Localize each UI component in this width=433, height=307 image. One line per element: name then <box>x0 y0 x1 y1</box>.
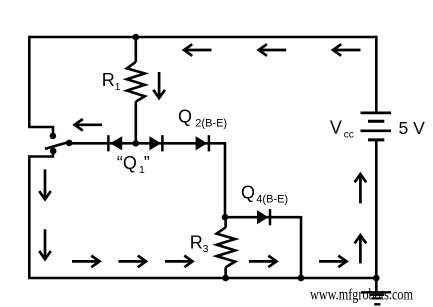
diode Q2(B-E) <box>196 135 209 151</box>
diode "Q1" collector (right-pointing) <box>149 135 162 151</box>
node R1 top junction <box>133 34 140 41</box>
arrow bottom right-2 <box>119 256 147 268</box>
arrow top left-1 <box>184 44 212 56</box>
diode Q4(B-E) <box>257 209 270 225</box>
switch pole node <box>66 140 73 147</box>
svg-text:V: V <box>330 118 342 138</box>
arrow down left rail 2 <box>39 229 51 259</box>
resistor R1 zigzag <box>127 62 145 102</box>
wire R3 bottom stub <box>224 267 227 278</box>
svg-text:1: 1 <box>115 81 121 93</box>
arrow bottom right-1 <box>72 256 100 268</box>
arrow down beside R1 <box>153 72 165 98</box>
wire switch lower contact to left rail <box>29 151 53 279</box>
node Q4 bottom <box>298 275 305 282</box>
wire ground stub <box>375 278 378 292</box>
svg-text:”: ” <box>144 153 150 173</box>
wire jog to switch upper contact <box>28 127 53 136</box>
wire Q4 branch horizontal <box>225 216 301 219</box>
resistor R3 zigzag <box>217 227 236 267</box>
svg-text:3: 3 <box>203 243 209 255</box>
arrow bottom right-4 <box>249 256 277 268</box>
svg-text:4(B-E): 4(B-E) <box>256 193 288 205</box>
svg-text:Q: Q <box>241 182 255 202</box>
wire Q2 cathode drop <box>224 142 227 217</box>
svg-text:www.mfgrobots.com: www.mfgrobots.com <box>310 287 413 304</box>
wire R1 bottom stub <box>135 102 138 144</box>
battery Vcc plates <box>361 113 392 140</box>
switch lower contact <box>50 148 57 155</box>
svg-text:R: R <box>190 232 203 252</box>
wire top rail <box>29 36 376 39</box>
svg-text:“Q: “Q <box>117 153 137 173</box>
svg-text:cc: cc <box>344 130 354 141</box>
arrow down left rail 1 <box>39 169 51 199</box>
wire Q4 branch drop <box>300 216 303 278</box>
arrow up right rail 2 <box>355 235 367 263</box>
diode "Q1" emitter (left-pointing) <box>108 135 122 151</box>
arrow bottom right-5 <box>319 256 347 268</box>
wire R3 top stub <box>224 217 227 227</box>
label R3 <box>190 232 209 255</box>
arrow top left-3 <box>333 44 361 56</box>
wire base rail (switch pole to Q2) <box>69 142 225 145</box>
svg-text:2(B-E): 2(B-E) <box>195 118 227 130</box>
current arrows <box>39 44 366 267</box>
svg-text:R: R <box>102 70 115 90</box>
svg-text:Q: Q <box>178 106 192 126</box>
wire left upper <box>28 36 31 127</box>
label Q2(B-E) <box>178 106 227 129</box>
label "Q1" <box>117 153 150 176</box>
switch upper contact <box>50 133 57 140</box>
battery plate long + <box>361 129 392 132</box>
wire right lower (battery - to bottom) <box>375 140 378 278</box>
node R3/Q4 junction <box>222 214 229 221</box>
switch lever <box>45 141 72 149</box>
node R3 bottom <box>222 275 229 282</box>
svg-text:5 V: 5 V <box>399 118 426 138</box>
node R1 bottom junction ("Q1" base) <box>133 140 140 147</box>
arrow bottom right-3 <box>165 256 193 268</box>
node ground corner <box>373 275 380 282</box>
wire bottom rail <box>28 277 376 280</box>
battery plate short - <box>368 120 384 123</box>
arrow into switch (left) <box>75 119 103 131</box>
arrow up right rail 1 <box>355 174 367 203</box>
wire R1 top stub <box>135 37 138 62</box>
label Q4(B-E) <box>241 182 288 205</box>
label R1 <box>102 70 121 93</box>
ground symbol <box>361 292 391 304</box>
battery plate short - (bottom) <box>368 138 384 141</box>
arrow top left-2 <box>259 44 287 56</box>
label Vcc <box>330 118 354 141</box>
battery plate long + (top) <box>361 112 392 115</box>
wire right upper (to battery +) <box>375 36 378 113</box>
